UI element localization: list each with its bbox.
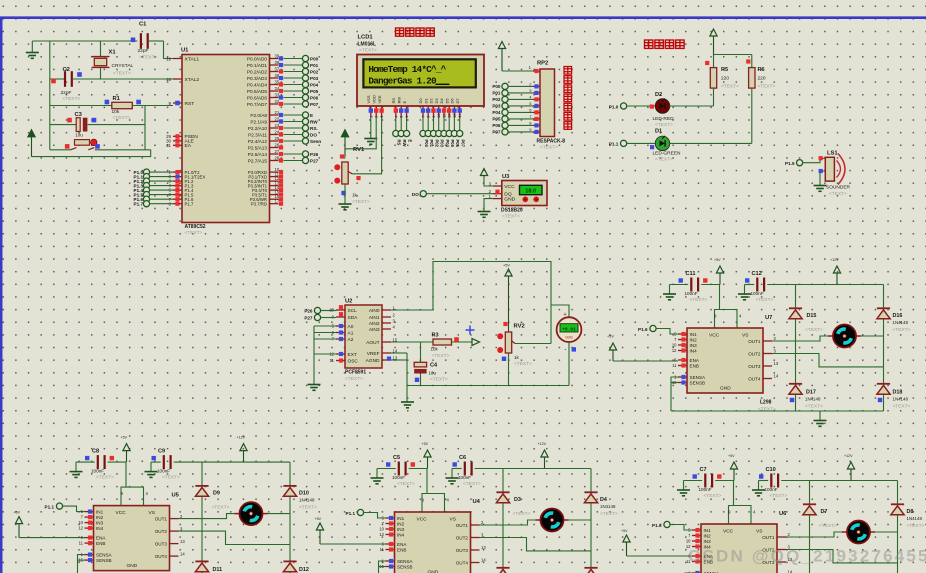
svg-text:RV1: RV1 — [353, 147, 365, 153]
svg-text:10: 10 — [686, 539, 691, 544]
svg-text:R6: R6 — [758, 67, 765, 73]
svg-text:HomeTemp 14*C^_^: HomeTemp 14*C^_^ — [368, 64, 446, 75]
svg-text:31: 31 — [166, 143, 171, 148]
svg-text:C10: C10 — [766, 467, 776, 473]
svg-text:<TEXT>: <TEXT> — [185, 230, 203, 236]
svg-text:<TEXT>: <TEXT> — [721, 83, 739, 89]
svg-text:VSS: VSS — [366, 95, 371, 103]
svg-text:L298: L298 — [760, 400, 772, 406]
svg-text:OUT4: OUT4 — [748, 376, 761, 381]
svg-text:OUT1: OUT1 — [762, 535, 775, 540]
svg-text:A1: A1 — [348, 330, 354, 336]
svg-text:P2.7/A15: P2.7/A15 — [248, 158, 268, 163]
svg-text:ENB: ENB — [397, 547, 406, 552]
svg-text:D3: D3 — [514, 497, 521, 503]
svg-text:22pF: 22pF — [61, 90, 72, 96]
svg-text:1k: 1k — [352, 192, 358, 197]
svg-text:<TEXT>: <TEXT> — [140, 54, 158, 60]
svg-text:<TEXT>: <TEXT> — [805, 404, 823, 410]
svg-text:R1: R1 — [113, 96, 121, 102]
svg-text:D17: D17 — [806, 390, 816, 396]
svg-text:35: 35 — [275, 80, 280, 85]
svg-text:VCC: VCC — [723, 529, 734, 535]
svg-text:<TEXT>: <TEXT> — [770, 493, 788, 499]
svg-text:D1: D1 — [655, 128, 662, 134]
svg-text:U5: U5 — [172, 493, 180, 499]
svg-text:P2.0/A8: P2.0/A8 — [250, 113, 267, 118]
svg-text:XTAL2: XTAL2 — [185, 77, 200, 83]
svg-text:1N4148: 1N4148 — [893, 320, 909, 325]
svg-text:1: 1 — [368, 116, 373, 118]
svg-text:P0.5/AD5: P0.5/AD5 — [247, 89, 267, 94]
svg-text:<TEXT>: <TEXT> — [758, 83, 776, 89]
svg-text:100nF: 100nF — [765, 487, 778, 492]
svg-text:C4: C4 — [430, 362, 438, 368]
svg-text:3: 3 — [379, 116, 384, 118]
svg-text:P27: P27 — [304, 316, 313, 321]
svg-text:RW: RW — [310, 119, 318, 124]
svg-text:+0.01: +0.01 — [562, 326, 576, 332]
svg-text:<TEXT>: <TEXT> — [655, 122, 673, 128]
svg-text:14: 14 — [481, 558, 486, 563]
svg-text:P03: P03 — [440, 140, 445, 148]
svg-text:P0.6/AD6: P0.6/AD6 — [247, 95, 267, 100]
svg-text:GND: GND — [127, 563, 138, 569]
svg-text:+12V: +12V — [538, 442, 547, 446]
svg-text:P00: P00 — [424, 140, 429, 148]
svg-text:D7: D7 — [455, 98, 460, 104]
svg-text:5: 5 — [399, 116, 404, 118]
svg-text:37: 37 — [275, 67, 280, 72]
svg-text:ENB: ENB — [96, 541, 105, 546]
svg-text:P1.6: P1.6 — [652, 523, 662, 528]
svg-text:<TEXT>: <TEXT> — [212, 505, 230, 511]
svg-text:26: 26 — [275, 143, 280, 148]
svg-text:P01: P01 — [429, 140, 434, 148]
svg-text:C11: C11 — [686, 271, 696, 277]
svg-text:U4: U4 — [473, 499, 481, 505]
svg-text:8: 8 — [426, 116, 431, 118]
svg-text:12: 12 — [672, 348, 677, 353]
svg-text:<TEXT>: <TEXT> — [655, 157, 673, 163]
svg-text:P01: P01 — [492, 91, 501, 96]
svg-text:<TEXT>: <TEXT> — [463, 481, 481, 487]
svg-text:+5V: +5V — [503, 264, 510, 268]
svg-text:P01: P01 — [310, 63, 319, 68]
svg-text:P2.6/A14: P2.6/A14 — [248, 152, 268, 157]
svg-text:LED-RED: LED-RED — [653, 116, 675, 122]
svg-text:P05: P05 — [492, 117, 501, 122]
svg-text:11: 11 — [672, 363, 677, 368]
svg-text:<TEXT>: <TEXT> — [514, 361, 532, 367]
svg-text:SENSA: SENSA — [397, 559, 414, 564]
svg-text:A2: A2 — [348, 337, 354, 343]
svg-text:P02: P02 — [492, 97, 501, 102]
svg-text:VS: VS — [450, 517, 456, 523]
svg-text:P1.1: P1.1 — [609, 142, 619, 147]
svg-text:1N4148: 1N4148 — [907, 516, 923, 521]
svg-text:OUT1: OUT1 — [456, 523, 469, 528]
svg-text:<TEXT>: <TEXT> — [893, 327, 911, 333]
svg-text:220: 220 — [758, 75, 766, 81]
svg-text:IN1: IN1 — [690, 332, 698, 337]
svg-text:ENA: ENA — [690, 358, 700, 363]
svg-text:P06: P06 — [455, 140, 460, 148]
svg-text:DO: DO — [412, 192, 419, 197]
svg-text:Volts: Volts — [565, 336, 573, 340]
svg-text:11: 11 — [330, 358, 335, 363]
svg-text:RV2: RV2 — [514, 324, 525, 330]
svg-text:22pF: 22pF — [138, 48, 149, 54]
svg-text:17: 17 — [275, 199, 280, 204]
svg-text:<TEXT>: <TEXT> — [540, 145, 558, 151]
svg-text:SENSB: SENSB — [690, 380, 706, 385]
svg-text:14: 14 — [774, 374, 779, 379]
svg-text:P26: P26 — [310, 152, 319, 157]
svg-text:21: 21 — [275, 110, 280, 115]
svg-text:13: 13 — [481, 545, 486, 550]
svg-text:100nF: 100nF — [91, 469, 104, 474]
svg-text:1N4148: 1N4148 — [805, 397, 821, 402]
svg-text:RP2: RP2 — [537, 61, 548, 67]
svg-text:P1.0: P1.0 — [609, 104, 619, 109]
svg-text:13: 13 — [452, 113, 457, 117]
svg-text:<TEXT>: <TEXT> — [432, 353, 450, 359]
svg-text:1N4148: 1N4148 — [893, 397, 909, 402]
svg-text:D7: D7 — [821, 509, 828, 515]
svg-text:1N4148: 1N4148 — [299, 498, 315, 503]
svg-text:10u: 10u — [75, 133, 83, 138]
svg-text:XTAL1: XTAL1 — [185, 56, 200, 62]
svg-text:D18: D18 — [893, 390, 903, 396]
svg-text:OUT1: OUT1 — [748, 339, 761, 344]
svg-text:D10: D10 — [299, 491, 309, 497]
svg-text:EXT: EXT — [348, 352, 357, 358]
svg-text:IN3: IN3 — [397, 527, 405, 532]
svg-text:VS: VS — [742, 333, 748, 339]
svg-text:D9: D9 — [213, 491, 220, 497]
svg-text:22: 22 — [275, 117, 280, 122]
svg-text:C8: C8 — [92, 449, 99, 455]
svg-text:RST: RST — [185, 101, 195, 107]
svg-text:RW: RW — [402, 140, 407, 147]
svg-text:14: 14 — [180, 551, 185, 556]
svg-text:LM016L: LM016L — [358, 42, 377, 48]
svg-text:+5V: +5V — [121, 436, 128, 440]
svg-text:VREF: VREF — [367, 351, 380, 357]
svg-text:<TEXT>: <TEXT> — [502, 214, 520, 220]
svg-text:IN2: IN2 — [704, 533, 712, 538]
svg-text:12: 12 — [379, 532, 384, 537]
svg-text:EA: EA — [185, 143, 192, 149]
svg-text:OUT1: OUT1 — [155, 517, 168, 522]
svg-text:13: 13 — [774, 361, 779, 366]
svg-text:U6: U6 — [779, 511, 787, 517]
svg-text:P1.5: P1.5 — [785, 161, 795, 166]
svg-text:100nF: 100nF — [458, 475, 471, 480]
svg-text:P2.3/A11: P2.3/A11 — [248, 132, 267, 137]
svg-text:C9: C9 — [158, 449, 165, 455]
svg-text:P02: P02 — [434, 140, 439, 148]
svg-text:18: 18 — [166, 77, 171, 82]
svg-text:RS: RS — [397, 140, 402, 146]
svg-text:P0.2/AD2: P0.2/AD2 — [247, 69, 267, 74]
svg-text:D15: D15 — [807, 313, 817, 319]
svg-text:VEE: VEE — [377, 95, 382, 103]
svg-text:D11: D11 — [213, 567, 223, 573]
svg-text:VS: VS — [756, 529, 762, 535]
svg-text:D16: D16 — [893, 313, 903, 319]
svg-text:<TEXT>: <TEXT> — [805, 327, 823, 333]
svg-text:10k: 10k — [431, 347, 439, 352]
svg-text:23: 23 — [275, 123, 280, 128]
svg-text:P06: P06 — [310, 95, 319, 100]
svg-text:+12V: +12V — [844, 454, 853, 458]
svg-text:D3: D3 — [434, 98, 439, 104]
svg-text:VCC: VCC — [116, 510, 127, 516]
svg-text:+5V: +5V — [728, 454, 735, 458]
svg-text:IN2: IN2 — [690, 337, 698, 342]
svg-text:AT89C52: AT89C52 — [185, 224, 206, 230]
svg-text:1k: 1k — [514, 355, 520, 360]
svg-text:<TEXT>: <TEXT> — [690, 297, 708, 303]
svg-text:E: E — [310, 113, 313, 118]
svg-text:19: 19 — [166, 56, 171, 61]
svg-text:RS: RS — [391, 98, 396, 104]
svg-text:P04: P04 — [310, 82, 319, 87]
svg-text:6: 6 — [404, 116, 409, 118]
svg-text:IN1: IN1 — [704, 528, 712, 533]
svg-text:-: - — [565, 347, 567, 353]
svg-text:AIN2: AIN2 — [369, 321, 380, 327]
svg-text:P03: P03 — [492, 104, 501, 109]
svg-text:12: 12 — [78, 526, 83, 531]
svg-text:PCF8591: PCF8591 — [345, 370, 366, 376]
svg-text:D6: D6 — [450, 98, 455, 104]
svg-text:IN3: IN3 — [690, 343, 698, 348]
svg-text:P1.6: P1.6 — [638, 327, 648, 332]
svg-text:P0.1/AD1: P0.1/AD1 — [247, 63, 267, 68]
svg-text:SENSA: SENSA — [690, 375, 707, 380]
svg-text:Senn: Senn — [310, 139, 321, 144]
svg-text:GND: GND — [720, 386, 731, 392]
svg-text:28: 28 — [275, 156, 280, 161]
svg-text:<TEXT>: <TEXT> — [819, 523, 837, 529]
svg-text:P05: P05 — [310, 89, 319, 94]
svg-text:IN3: IN3 — [96, 521, 104, 526]
svg-text:34: 34 — [275, 86, 280, 91]
svg-text:<TEXT>: <TEXT> — [704, 493, 722, 499]
svg-text:AIN0: AIN0 — [369, 308, 380, 314]
svg-text:P07: P07 — [461, 140, 466, 148]
svg-text:+: + — [564, 312, 567, 318]
svg-text:<TEXT>: <TEXT> — [359, 48, 377, 54]
svg-text:D12: D12 — [299, 567, 309, 573]
svg-text:100nF: 100nF — [751, 291, 764, 296]
svg-text:P00: P00 — [310, 56, 319, 61]
svg-text:100nF: 100nF — [699, 487, 712, 492]
svg-text:11: 11 — [79, 541, 84, 546]
svg-text:OUT4: OUT4 — [155, 554, 168, 559]
svg-text:<TEXT>: <TEXT> — [893, 404, 911, 410]
svg-text:R3: R3 — [432, 333, 439, 339]
svg-text:P2.5/A13: P2.5/A13 — [248, 145, 268, 150]
svg-text:OUT2: OUT2 — [155, 529, 168, 534]
svg-text:100nF: 100nF — [685, 291, 698, 296]
svg-text:LS1: LS1 — [827, 151, 838, 157]
svg-text:VCC: VCC — [504, 184, 515, 190]
svg-text:<TEXT>: <TEXT> — [397, 481, 415, 487]
svg-text:C6: C6 — [459, 455, 466, 461]
svg-text:P07: P07 — [492, 130, 501, 135]
svg-text:10: 10 — [379, 527, 384, 532]
svg-text:P05: P05 — [450, 140, 455, 148]
svg-text:GND: GND — [504, 197, 515, 203]
svg-text:DO: DO — [310, 132, 317, 137]
svg-text:<TEXT>: <TEXT> — [352, 199, 370, 205]
svg-text:C7: C7 — [700, 467, 707, 473]
svg-text:DangerGas 1.20: DangerGas 1.20 — [368, 76, 437, 87]
svg-text:VS: VS — [149, 510, 155, 516]
svg-text:P0.0/AD0: P0.0/AD0 — [247, 56, 267, 61]
svg-text:SENSA: SENSA — [96, 553, 113, 558]
svg-text:<TEXT>: <TEXT> — [907, 523, 925, 529]
svg-text:IN2: IN2 — [397, 521, 405, 526]
svg-text:<TEXT>: <TEXT> — [430, 377, 448, 383]
svg-text:SOUNDER: SOUNDER — [826, 184, 851, 190]
svg-text:13: 13 — [180, 539, 185, 544]
svg-text:C3: C3 — [75, 112, 83, 118]
svg-text:AIN3: AIN3 — [369, 327, 380, 333]
svg-text:RS.: RS. — [310, 126, 318, 131]
svg-text:<TEXT>: <TEXT> — [113, 115, 131, 121]
svg-text:38: 38 — [275, 60, 280, 65]
svg-text:OUT3: OUT3 — [456, 548, 469, 553]
svg-text:X1: X1 — [109, 50, 117, 56]
svg-text:P04: P04 — [492, 110, 501, 115]
svg-text:LED-GREEN: LED-GREEN — [653, 150, 682, 156]
svg-text:D1: D1 — [423, 98, 428, 104]
svg-text:27: 27 — [275, 149, 280, 154]
svg-text:<TEXT>: <TEXT> — [299, 505, 317, 511]
svg-text:220: 220 — [721, 75, 729, 81]
svg-text:P0.3/AD3: P0.3/AD3 — [247, 76, 267, 81]
svg-text:<TEXT>: <TEXT> — [345, 376, 363, 382]
svg-text:VCC: VCC — [709, 333, 720, 339]
svg-text:RESPACK-8: RESPACK-8 — [537, 139, 566, 145]
svg-text:OSC: OSC — [348, 358, 359, 364]
svg-text:+5V: +5V — [422, 442, 429, 446]
svg-text:AOUT: AOUT — [366, 340, 379, 346]
svg-text:10: 10 — [78, 520, 83, 525]
svg-text:OUT3: OUT3 — [155, 542, 168, 547]
svg-text:AGND: AGND — [366, 358, 380, 364]
svg-text:IN2: IN2 — [96, 515, 104, 520]
svg-text:C5: C5 — [393, 455, 400, 461]
svg-text:AIN1: AIN1 — [369, 315, 380, 321]
svg-text:RW: RW — [396, 97, 401, 104]
svg-text:25: 25 — [275, 136, 280, 141]
svg-text:ENB: ENB — [690, 363, 699, 368]
svg-text:A0: A0 — [348, 324, 354, 330]
svg-text:P07: P07 — [310, 102, 319, 107]
svg-text:P26: P26 — [304, 309, 313, 314]
svg-text:ENA: ENA — [397, 542, 407, 547]
svg-text:P27: P27 — [310, 158, 319, 163]
svg-text:39: 39 — [275, 54, 280, 59]
svg-text:SDA: SDA — [348, 315, 359, 321]
svg-text:P1.7: P1.7 — [134, 202, 144, 207]
svg-text:D4: D4 — [600, 497, 607, 503]
svg-text:<TEXT>: <TEXT> — [96, 475, 114, 481]
svg-text:+5V: +5V — [315, 517, 322, 521]
svg-text:100nF: 100nF — [392, 475, 405, 480]
svg-text:18.0: 18.0 — [525, 189, 536, 195]
svg-text:P2.2/A10: P2.2/A10 — [248, 126, 268, 131]
svg-text:LCD1: LCD1 — [358, 35, 374, 41]
svg-text:E: E — [407, 140, 412, 143]
svg-text:100nF: 100nF — [157, 469, 170, 474]
svg-text:33: 33 — [275, 93, 280, 98]
svg-text:P0.4/AD4: P0.4/AD4 — [247, 82, 267, 87]
svg-text:P00: P00 — [492, 84, 501, 89]
svg-text:<TEXT>: <TEXT> — [63, 96, 81, 102]
svg-text:P02: P02 — [310, 69, 319, 74]
svg-text:SCL: SCL — [348, 308, 358, 314]
svg-text:U3: U3 — [502, 174, 510, 180]
svg-text:IN4: IN4 — [96, 526, 104, 531]
svg-text:<TEXT>: <TEXT> — [162, 475, 180, 481]
svg-text:P1.1: P1.1 — [45, 505, 55, 510]
svg-text:U7: U7 — [765, 315, 772, 321]
svg-text:P2.1/A9: P2.1/A9 — [250, 119, 267, 124]
svg-text:D2: D2 — [655, 92, 662, 98]
svg-text:<TEXT>: <TEXT> — [113, 70, 131, 76]
svg-text:<TEXT>: <TEXT> — [829, 191, 847, 197]
svg-text:DS18B20: DS18B20 — [501, 208, 523, 214]
svg-text:C12: C12 — [752, 271, 762, 277]
svg-text:P06: P06 — [492, 123, 501, 128]
svg-text:P03: P03 — [310, 76, 319, 81]
svg-text:+5V: +5V — [607, 334, 614, 338]
svg-text:P3.7/RD: P3.7/RD — [251, 202, 267, 207]
svg-text:+12V: +12V — [237, 436, 246, 440]
svg-text:IN1: IN1 — [397, 516, 405, 521]
svg-text:GND: GND — [428, 570, 439, 573]
svg-text:32: 32 — [275, 99, 280, 104]
svg-text:11: 11 — [380, 547, 385, 552]
svg-text:VCC: VCC — [417, 517, 428, 523]
svg-text:+12V: +12V — [830, 258, 839, 262]
svg-text:OUT2: OUT2 — [748, 351, 761, 356]
svg-text:U2: U2 — [345, 299, 352, 305]
svg-text:24: 24 — [275, 130, 280, 135]
svg-text:CSDN @QQ_2193276455: CSDN @QQ_2193276455 — [688, 547, 926, 566]
svg-text:C1: C1 — [139, 22, 147, 28]
svg-text:<TEXT>: <TEXT> — [600, 511, 618, 517]
svg-text:1N4148: 1N4148 — [600, 504, 616, 509]
svg-text:P2.4/A12: P2.4/A12 — [248, 139, 268, 144]
svg-text:CRYSTAL: CRYSTAL — [112, 63, 134, 69]
svg-text:P0.7/AD7: P0.7/AD7 — [247, 102, 267, 107]
svg-text:D8: D8 — [907, 509, 914, 515]
svg-text:SENSB: SENSB — [96, 558, 112, 563]
svg-text:2: 2 — [374, 116, 379, 118]
svg-text:+5V: +5V — [621, 529, 628, 533]
svg-text:10k: 10k — [112, 109, 120, 115]
svg-text:VDD: VDD — [371, 95, 376, 104]
svg-text:OUT3: OUT3 — [748, 364, 761, 369]
